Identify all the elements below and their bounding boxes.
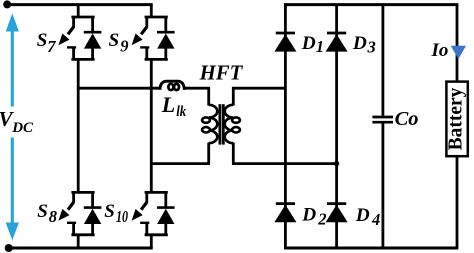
- node dot bottom-left DC bus: [5, 244, 13, 252]
- switch S10 switch blade: [141, 202, 147, 210]
- switch S10 diode cathode bar: [157, 206, 175, 209]
- switch S7 diode upper lead: [91, 16, 94, 32]
- svg-text:10: 10: [116, 207, 128, 226]
- diode D3 triangle: [326, 34, 348, 51]
- battery box: [446, 82, 467, 157]
- switch S8 diode triangle: [84, 209, 101, 224]
- svg-text:HFT: HFT: [199, 61, 244, 84]
- switch S10 diode lower lead: [164, 223, 167, 235]
- diode D4 cathode bar: [327, 202, 346, 205]
- wire capacitor lower lead: [381, 123, 384, 248]
- switch S9 diode cathode bar: [157, 31, 175, 34]
- switch S10 diode triangle: [157, 209, 174, 224]
- switch S10 switch blade arrowhead: [132, 209, 143, 221]
- wire leg1 to bottom rail: [77, 234, 80, 248]
- switch S8 switch upper stub: [72, 191, 75, 202]
- switch S10 body top bar: [145, 191, 168, 194]
- svg-text:L: L: [161, 92, 175, 117]
- svg-text:DC: DC: [11, 120, 34, 136]
- svg-text:4: 4: [371, 210, 380, 229]
- transformer secondary ring 1: [232, 117, 240, 122]
- svg-text:1: 1: [316, 37, 324, 56]
- switch S8 diode upper lead: [91, 191, 94, 207]
- switch S9 diode triangle: [157, 33, 174, 48]
- wire rectifier leg1 (D1 D2): [284, 5, 287, 248]
- wire leg2 drop from top rail: [150, 5, 153, 18]
- switch S7 switch lower contact tick: [67, 46, 76, 48]
- wire rectifier leg2 (D3 D4): [335, 5, 338, 248]
- transformer primary winding bumps: [209, 105, 218, 143]
- switch S8 diode lower lead: [91, 223, 94, 235]
- svg-text:S: S: [109, 30, 120, 51]
- switch S9 diode upper lead: [164, 16, 167, 32]
- switch S7 switch lower stub: [72, 47, 75, 60]
- switch S9 body bottom bar: [145, 58, 168, 61]
- svg-text:Co: Co: [395, 108, 419, 130]
- svg-text:D: D: [301, 33, 316, 54]
- svg-text:7: 7: [47, 37, 56, 56]
- switch S7 body top bar: [71, 16, 94, 19]
- capacitor Co bottom plate: [372, 121, 393, 124]
- inductor Llk ring 2: [174, 84, 179, 90]
- svg-text:8: 8: [49, 207, 57, 226]
- transformer secondary winding bumps: [225, 105, 234, 143]
- wire bridge midpoint horizontal: [78, 87, 160, 90]
- transformer core bar right: [222, 104, 225, 144]
- wire leg2 to bottom rail: [150, 234, 153, 248]
- svg-text:D: D: [355, 205, 370, 226]
- wire primary bottom horizontal: [151, 162, 210, 165]
- svg-text:9: 9: [120, 36, 128, 55]
- svg-text:S: S: [104, 201, 115, 222]
- switch S10 body bottom bar: [145, 233, 168, 236]
- diode D1 cathode bar: [276, 32, 295, 35]
- switch S7 diode triangle: [84, 33, 101, 48]
- wire secondary bottom to rectifier: [232, 162, 337, 165]
- switch S9 switch upper stub: [145, 16, 148, 27]
- switch S7 switch upper stub: [72, 16, 75, 27]
- switch S7 diode cathode bar: [84, 31, 102, 34]
- VDC arrow head down: [6, 223, 19, 241]
- svg-text:D: D: [352, 33, 367, 54]
- VDC arrow head up: [6, 13, 19, 31]
- wire top rail (primary side): [6, 3, 152, 6]
- diode D1 triangle: [274, 34, 296, 51]
- switch S8 diode cathode bar: [84, 206, 102, 209]
- switch S8 switch blade arrowhead: [58, 209, 69, 221]
- switch S8 switch blade: [68, 202, 74, 210]
- transformer secondary ring 2: [232, 127, 240, 132]
- diode D2 triangle: [274, 205, 296, 222]
- wire battery lower lead: [456, 155, 459, 248]
- inductor Llk arch: [160, 81, 184, 90]
- wire battery upper lead: [456, 5, 459, 83]
- wire secondary top lead: [232, 87, 235, 105]
- switch S10 switch upper stub: [145, 191, 148, 202]
- diode D2 cathode bar: [276, 202, 295, 205]
- switch S7 body bottom bar: [71, 58, 94, 61]
- svg-text:2: 2: [317, 209, 326, 228]
- switch S9 switch blade arrowhead: [132, 34, 143, 46]
- transformer primary ring 2: [202, 127, 210, 132]
- svg-text:Battery: Battery: [445, 87, 466, 150]
- wire leg2 middle section: [150, 58, 153, 193]
- switch S9 body top bar: [145, 16, 168, 19]
- VDC arrow shaft upper: [11, 29, 14, 107]
- svg-text:Io: Io: [431, 40, 449, 61]
- switch S8 switch lower contact tick: [67, 222, 76, 224]
- switch S7 switch blade: [68, 27, 74, 35]
- switch S8 body bottom bar: [71, 233, 94, 236]
- switch S7 diode lower lead: [91, 48, 94, 60]
- diode D3 cathode bar: [327, 32, 346, 35]
- switch S10 switch lower stub: [145, 223, 148, 236]
- wire leg1 drop from top rail: [77, 5, 80, 18]
- svg-text:lk: lk: [176, 104, 186, 120]
- capacitor Co top plate: [372, 116, 393, 119]
- wire capacitor upper lead: [381, 5, 384, 116]
- wire top rail (secondary side): [284, 3, 458, 6]
- switch S9 switch lower stub: [145, 47, 148, 60]
- Io arrow head (blue): [451, 46, 466, 59]
- wire secondary top to rectifier: [232, 87, 285, 90]
- transformer core bar left: [218, 104, 221, 144]
- node dot rectifier leg2 junction: [334, 161, 339, 166]
- switch S10 switch lower contact tick: [140, 222, 149, 224]
- switch S7 switch blade arrowhead: [58, 34, 69, 46]
- svg-text:S: S: [37, 30, 48, 51]
- wire bottom rail (primary side): [9, 247, 153, 250]
- switch S9 switch blade: [141, 27, 147, 35]
- transformer primary ring 1: [202, 117, 210, 122]
- switch S9 switch lower contact tick: [140, 46, 149, 48]
- wire primary bottom lead: [207, 143, 210, 164]
- wire inductor to primary top: [184, 87, 210, 90]
- VDC arrow shaft lower: [11, 138, 14, 225]
- switch S8 body top bar: [71, 191, 94, 194]
- switch S9 diode lower lead: [164, 48, 167, 60]
- wire primary top lead: [207, 87, 210, 105]
- switch S10 diode upper lead: [164, 191, 167, 207]
- svg-text:3: 3: [367, 38, 376, 57]
- node dot top-left DC bus: [3, 0, 11, 8]
- svg-text:S: S: [37, 201, 48, 222]
- wire secondary bottom lead: [232, 143, 235, 164]
- svg-text:D: D: [301, 204, 316, 225]
- wire bottom rail (secondary side): [284, 247, 458, 250]
- inductor Llk ring 1: [168, 84, 173, 90]
- switch S8 switch lower stub: [72, 223, 75, 236]
- diode D4 triangle: [326, 205, 348, 222]
- wire leg1 middle section: [77, 58, 80, 193]
